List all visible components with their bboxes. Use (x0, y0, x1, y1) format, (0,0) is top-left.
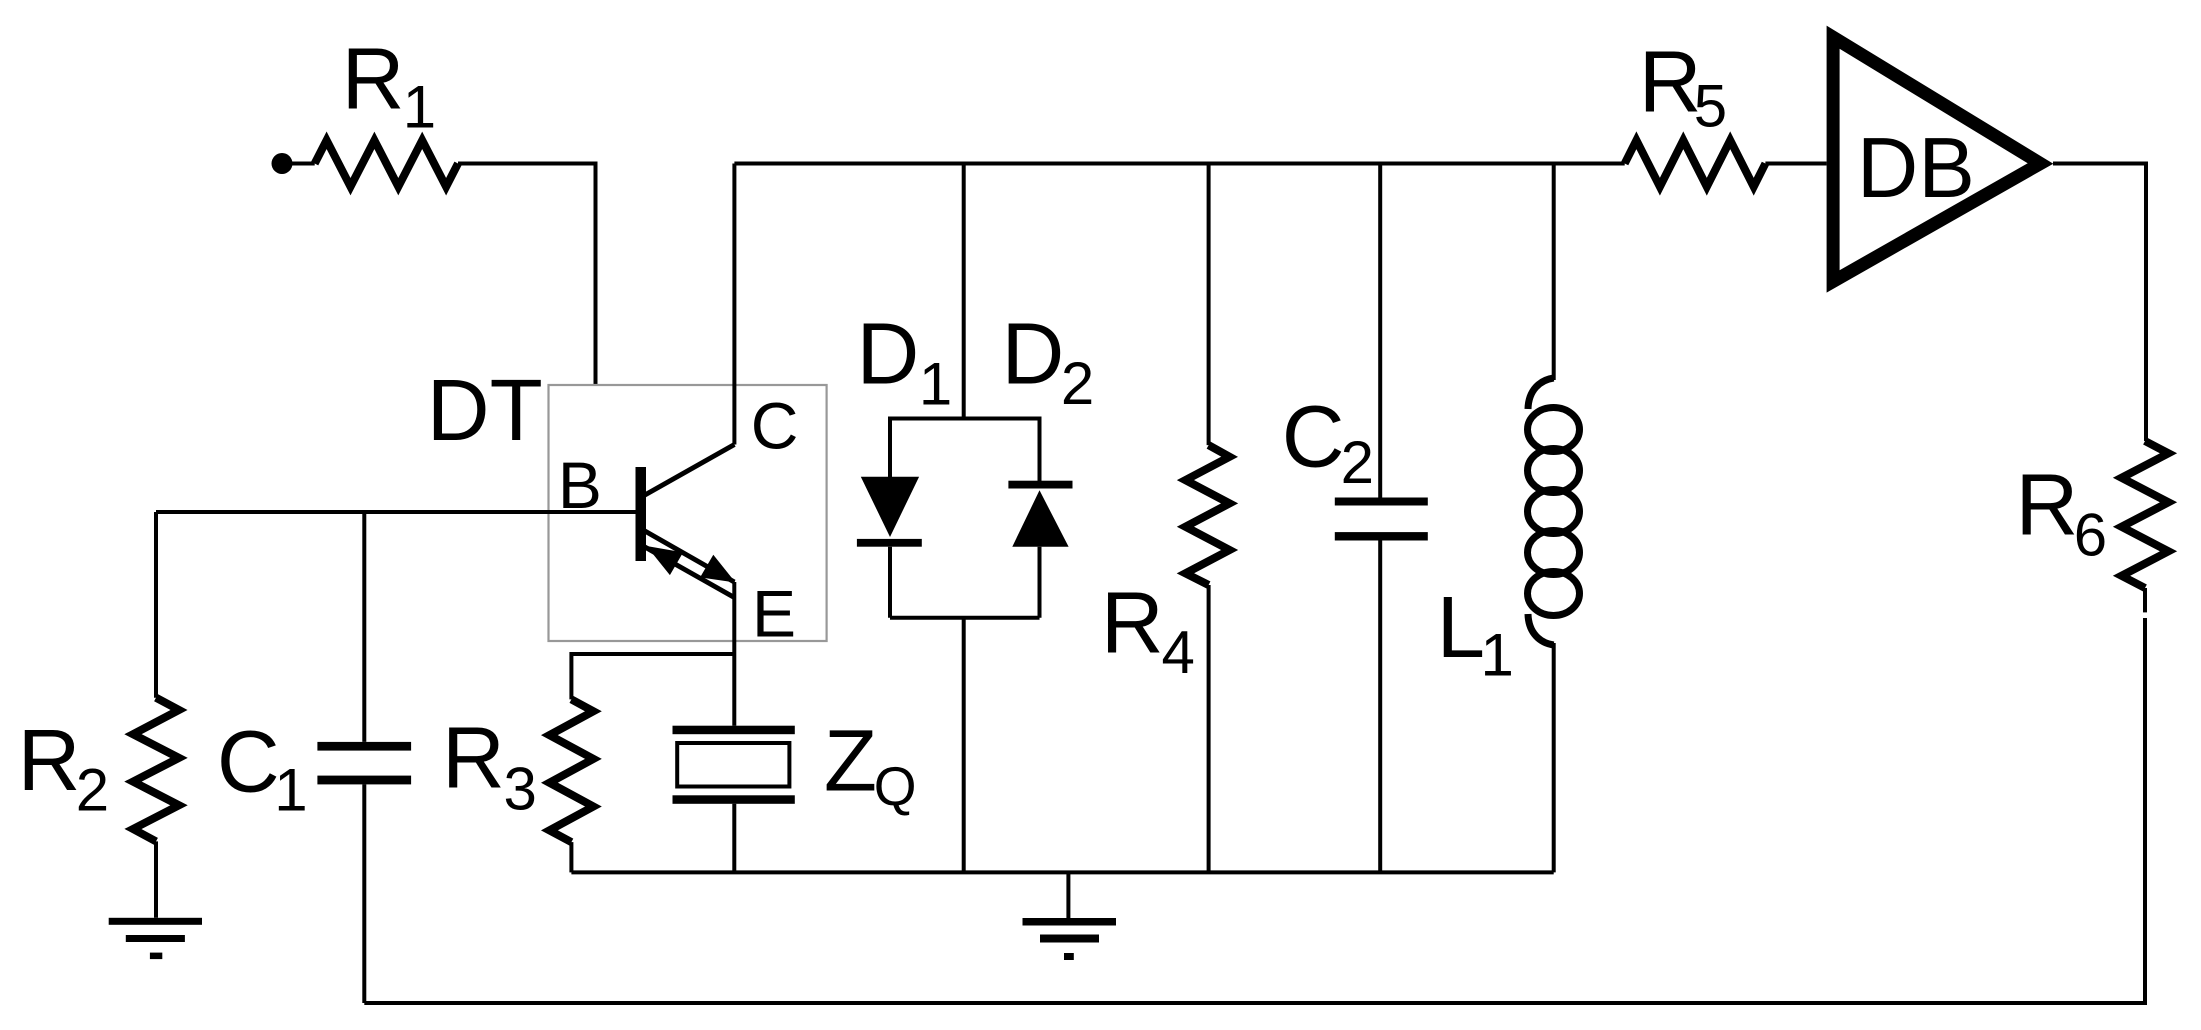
wire base to C1 (362, 512, 366, 742)
wire base to R2 (154, 512, 158, 698)
svg-text:4: 4 (1162, 619, 1195, 686)
svg-text:R: R (342, 30, 405, 127)
wire R4 bottom (1207, 585, 1211, 872)
capacitor C1 (217, 512, 411, 824)
wire diode branch bottom (962, 618, 966, 873)
svg-text:B: B (558, 448, 602, 522)
wire C2 bottom (1378, 541, 1382, 873)
wire R3 top tee to emitter (571, 654, 734, 699)
collector diagonal (644, 445, 734, 496)
wire D1 anode lead (888, 417, 892, 478)
svg-text:5: 5 (1694, 73, 1727, 140)
resistor R1 (315, 30, 458, 186)
svg-text:2: 2 (76, 756, 109, 823)
resistor R5 (1625, 33, 1766, 186)
wire bottom rail (571, 870, 1553, 874)
svg-text:DT: DT (427, 362, 543, 459)
wire C2 top (1378, 164, 1382, 498)
svg-text:DB: DB (1857, 121, 1975, 216)
wire emitter vertical (732, 582, 736, 726)
svg-text:R: R (2016, 456, 2079, 553)
wire ground stub center (1066, 872, 1070, 918)
arrow on upper emitter line pointing to emitter (700, 555, 735, 583)
op-amp buffer DB (1833, 37, 2040, 281)
transistor DT (156, 164, 827, 651)
wire D2 anode lead (1038, 547, 1042, 618)
wire diode top bracket (890, 417, 1040, 421)
svg-text:1: 1 (403, 73, 436, 140)
capacitor C2 (1282, 164, 1428, 541)
wire L1 bottom (1552, 643, 1556, 872)
inductor L1 (1437, 164, 1580, 689)
emitter lower diagonal (644, 547, 734, 598)
arrow on lower emitter line pointing to base bar (647, 546, 684, 575)
wire D1 cathode lead (888, 547, 892, 618)
diode D1 (857, 306, 953, 547)
svg-text:3: 3 (504, 756, 537, 823)
wire R4 top (1207, 164, 1211, 446)
DT enclosure box (549, 385, 827, 641)
resistor R2 (18, 512, 179, 841)
wire input dot to R1 (288, 162, 315, 166)
node input terminal dot (272, 153, 293, 174)
wire C1 bottom to feedback rail (362, 784, 366, 1003)
resistor R6 (2016, 441, 2169, 588)
wire top rail R5 to DB (1765, 162, 1826, 166)
svg-text:Z: Z (824, 712, 877, 809)
svg-text:C: C (1282, 389, 1345, 486)
wire collector riser (732, 164, 736, 445)
svg-text:E: E (752, 577, 796, 651)
svg-text:R: R (1101, 575, 1164, 672)
svg-text:L: L (1437, 579, 1485, 676)
wire R2 to ground (154, 841, 158, 917)
wire DB output to right corner down to R6 (2053, 164, 2146, 442)
wire R3 bottom (569, 842, 573, 872)
svg-text:R: R (1639, 33, 1702, 130)
svg-text:R: R (442, 710, 505, 807)
ground center (1023, 918, 1117, 960)
wire R1 to DT box top (458, 164, 596, 386)
base bar (636, 467, 647, 561)
wire diode bottom bracket (890, 616, 1040, 620)
svg-text:Q: Q (874, 755, 917, 817)
svg-text:D: D (857, 306, 920, 403)
crystal ZQ (673, 712, 917, 817)
diode D2 (1002, 306, 1095, 547)
wire diode branch top (962, 164, 966, 419)
wire R6 bottom short segment before gap (2143, 588, 2147, 612)
svg-text:1: 1 (274, 757, 307, 824)
wire crystal bottom (732, 804, 736, 873)
svg-text:1: 1 (1481, 622, 1514, 689)
svg-text:1: 1 (919, 351, 952, 418)
svg-text:D: D (1002, 306, 1065, 403)
svg-text:C: C (217, 713, 280, 810)
wire L1 top (1552, 164, 1556, 381)
svg-text:6: 6 (2074, 501, 2107, 568)
wire D2 cathode lead (1038, 417, 1042, 482)
wire feedback bottom rail (364, 618, 2145, 1003)
svg-text:C: C (751, 389, 799, 463)
wire base lead (156, 510, 636, 514)
svg-text:2: 2 (1061, 350, 1094, 417)
wire top rail left section (734, 162, 1624, 166)
svg-text:2: 2 (1341, 429, 1374, 496)
svg-text:R: R (18, 712, 81, 809)
resistor R4 (1101, 164, 1230, 686)
resistor R3 (442, 654, 734, 842)
ground under R2 (109, 918, 202, 959)
emitter upper diagonal (644, 531, 734, 583)
